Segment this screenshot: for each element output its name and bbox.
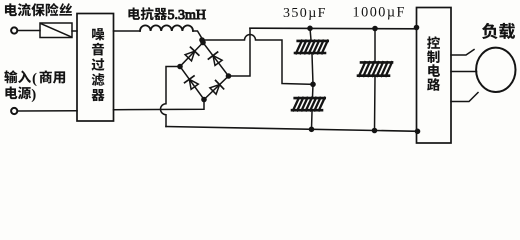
motor lead (phase W): [451, 93, 478, 102]
wire: [312, 54, 313, 84]
capacitor C1 350uF: [298, 40, 328, 43]
noise filter box (噪音过滤器): [77, 14, 114, 122]
wire (bridge right vertex to DC+ riser): [229, 28, 251, 76]
wire: [18, 30, 40, 32]
diode D1 (L to T edge): [185, 51, 195, 61]
wire: [374, 29, 376, 62]
wire (AC to doubler midpoint, hops over DC+ riser): [202, 35, 313, 85]
inductor L1 5.3mH (电抗器): [140, 25, 193, 31]
node: C2 / bottom rail junction: [309, 127, 315, 133]
wire: [114, 30, 141, 32]
input terminal (bottom, neutral): [11, 108, 17, 114]
wire: [310, 28, 311, 40]
wire: [18, 110, 77, 112]
wire: [72, 30, 77, 32]
wire: [311, 112, 314, 129]
wire (filter bottom output to bridge bottom vertex): [114, 100, 205, 110]
diode D4 (B to R edge): [210, 85, 220, 95]
label: 输入(商用电源) (input, commercial power): [4, 70, 65, 103]
node: bridge right vertex: [226, 73, 232, 79]
node: bridge left vertex: [177, 64, 183, 70]
node: voltage-doubler midpoint: [310, 82, 316, 88]
capacitor C2 350uF: [295, 97, 325, 100]
node: bridge top vertex: [200, 40, 206, 46]
label: 电抗器5.3mH: [128, 7, 206, 23]
top rail (DC+): [250, 27, 417, 30]
node: bottom rail into control box: [415, 129, 421, 135]
node: AC junction at bridge top: [199, 37, 205, 43]
capacitor C3 1000uF: [361, 61, 392, 64]
wire: [312, 84, 315, 97]
wire (bridge left vertex to DC- rail, hops over AC wire): [161, 67, 180, 127]
node: top rail / C3 junction: [372, 26, 378, 32]
fuse F1 (current fuse): [40, 23, 72, 38]
svg-text:): ): [31, 87, 36, 103]
bridge rectifier (diamond): [180, 43, 229, 100]
label: 电流保险丝 (current fuse): [5, 3, 72, 16]
svg-text:5.3mH: 5.3mH: [168, 8, 207, 23]
node: bridge bottom vertex: [201, 97, 207, 103]
load M (负载) motor circle: [476, 48, 515, 92]
bottom rail (DC-): [166, 127, 418, 132]
svg-text:(: (: [32, 71, 37, 87]
node: top rail into control box: [414, 25, 420, 31]
label: 控制电路 (control circuit) vertical: [427, 36, 440, 90]
wire (inductor to bridge-top node, with jog down): [193, 31, 202, 40]
svg-text:1000µF: 1000µF: [353, 5, 406, 21]
diode D3 (B to L edge): [189, 79, 198, 89]
input terminal (top, line): [11, 27, 17, 33]
label: 负载 (load): [482, 23, 515, 39]
node: C3 / bottom rail junction: [372, 128, 378, 134]
svg-text:350µF: 350µF: [283, 6, 327, 21]
wire: [374, 77, 377, 131]
motor lead (phase U): [451, 50, 474, 56]
motor lead (phase V): [451, 71, 477, 73]
control circuit box (控制电路): [417, 8, 452, 144]
label: 噪音过滤器 (noise filter) vertical: [92, 28, 105, 101]
node: top rail / C1 junction: [307, 26, 313, 32]
diode D2 (R to T edge): [213, 56, 222, 66]
